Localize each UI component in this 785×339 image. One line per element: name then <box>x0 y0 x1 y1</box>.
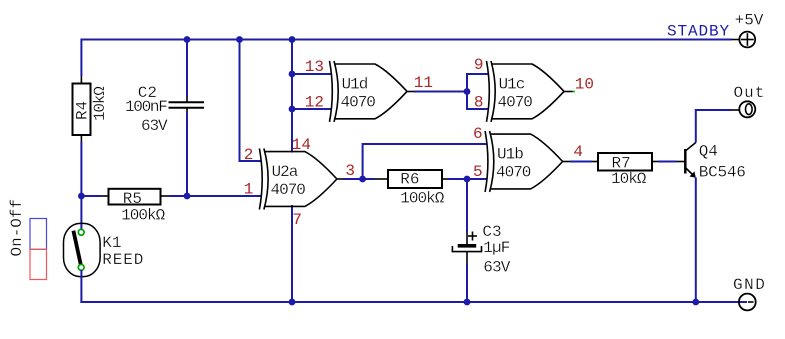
svg-text:4070: 4070 <box>498 94 533 112</box>
svg-text:U2a: U2a <box>272 163 299 181</box>
svg-text:R4: R4 <box>74 101 92 120</box>
resistor R4 <box>73 76 91 142</box>
svg-text:4: 4 <box>573 143 583 161</box>
wire U2a output pin3 <box>337 178 344 180</box>
xor gate U1c <box>487 61 565 122</box>
svg-text:GND: GND <box>733 276 766 294</box>
svg-text:4070: 4070 <box>341 94 376 112</box>
wire node3 riser to U1b pin6 <box>363 144 488 179</box>
wire left rail upper <box>80 39 82 77</box>
svg-text:REED: REED <box>102 251 144 269</box>
svg-text:3: 3 <box>345 162 355 180</box>
svg-text:Out: Out <box>734 84 766 102</box>
svg-text:6: 6 <box>473 125 483 143</box>
svg-text:12: 12 <box>305 93 324 111</box>
svg-text:U1c: U1c <box>499 76 525 94</box>
svg-text:9: 9 <box>474 56 484 74</box>
xor gate U2a <box>259 149 337 210</box>
wire U1b output pin4 <box>563 161 570 163</box>
wire left rail mid <box>80 142 82 230</box>
wire top rail <box>81 39 731 41</box>
svg-text:2: 2 <box>244 146 254 164</box>
svg-text:100kΩ: 100kΩ <box>400 190 444 208</box>
svg-text:1µF: 1µF <box>483 239 509 257</box>
svg-text:100nF: 100nF <box>125 98 167 116</box>
svg-text:R6: R6 <box>400 171 419 189</box>
supply +5V terminal <box>732 32 756 48</box>
terminal Out <box>732 101 756 117</box>
node junction pin5/C3 <box>464 176 471 183</box>
node junction pin12 <box>289 106 296 113</box>
switch frame lower (red) <box>30 249 47 279</box>
svg-text:BC546: BC546 <box>699 163 746 181</box>
svg-text:U1b: U1b <box>497 146 523 164</box>
resistor R6 <box>374 170 448 188</box>
wire U1d pin13 stub <box>292 73 332 75</box>
svg-text:10: 10 <box>575 76 594 94</box>
svg-text:8: 8 <box>474 94 484 112</box>
svg-text:14: 14 <box>292 136 311 154</box>
wire to Out terminal <box>695 109 732 111</box>
wire Q4 collector up <box>695 110 697 143</box>
wire U1c output pin10 stub <box>564 91 573 93</box>
wire U2a pin7 to ground rail <box>291 205 293 303</box>
xor gate U1b <box>485 131 562 192</box>
node junction pin13 <box>289 71 296 78</box>
wire U1c input vertical <box>467 74 489 109</box>
switch frame upper (blue) <box>30 219 47 250</box>
node junction left-R5 <box>78 193 85 200</box>
wire U1d output pin11 <box>407 91 414 93</box>
wire left rail lower <box>80 270 82 303</box>
terminal GND <box>739 294 756 311</box>
wire R7 to Q4 base <box>658 161 677 163</box>
capacitor C2 <box>169 97 205 113</box>
capacitor C3 <box>452 232 481 265</box>
wire R5 to U2a pin1 <box>170 195 262 197</box>
wire Q4 emitter down <box>695 178 697 304</box>
svg-text:+5V: +5V <box>735 12 764 30</box>
resistor R5 <box>101 189 170 205</box>
svg-text:100kΩ: 100kΩ <box>121 206 165 224</box>
node junction top rail x292 <box>289 36 296 43</box>
node junction pin11/U1c <box>464 88 471 95</box>
wire U1d pin12 stub <box>292 108 332 110</box>
svg-text:10kΩ: 10kΩ <box>91 86 109 121</box>
svg-text:4070: 4070 <box>271 181 306 199</box>
svg-text:5: 5 <box>473 163 483 181</box>
svg-text:10kΩ: 10kΩ <box>611 170 647 188</box>
svg-text:11: 11 <box>414 74 433 92</box>
node junction top rail C2 <box>184 36 191 43</box>
svg-text:STADBY: STADBY <box>667 23 730 41</box>
wire U2a pin2 feed <box>240 39 262 162</box>
node junction pin7 ground <box>289 299 296 306</box>
wire C3 to ground rail <box>466 264 468 303</box>
wire C3 drop <box>466 179 468 233</box>
wire R5 line <box>81 195 100 197</box>
wire R6 to U1b pin5 <box>448 178 487 180</box>
svg-text:63V: 63V <box>141 117 168 135</box>
relay contact K1 <box>64 223 101 276</box>
xor gate U1d <box>330 61 408 122</box>
svg-text:On-Off: On-Off <box>8 199 26 257</box>
node junction emitter ground <box>692 299 699 306</box>
wire C2 drop lower <box>186 113 188 196</box>
svg-text:1: 1 <box>244 180 254 198</box>
svg-text:Q4: Q4 <box>699 142 718 160</box>
wire bottom rail <box>80 301 747 303</box>
svg-text:4070: 4070 <box>496 164 531 182</box>
node junction R5/C2 <box>184 193 191 200</box>
svg-text:U1d: U1d <box>342 76 368 94</box>
wire C2 drop upper <box>186 40 188 98</box>
node junction C3 ground <box>464 299 471 306</box>
svg-text:7: 7 <box>292 211 302 229</box>
transistor Q4 <box>677 143 696 178</box>
node junction pin3 <box>359 176 366 183</box>
node junction top rail pin2 <box>236 36 243 43</box>
resistor R7 <box>592 153 658 171</box>
svg-text:63V: 63V <box>483 258 510 276</box>
svg-text:13: 13 <box>305 58 324 76</box>
svg-text:K1: K1 <box>102 234 121 252</box>
wire U1d/U2a power vertical <box>291 39 293 153</box>
